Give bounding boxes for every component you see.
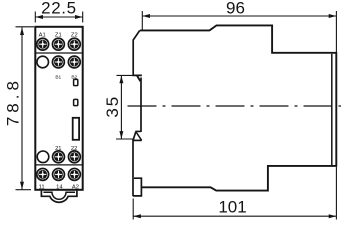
dim 35 bottom arrow	[119, 131, 123, 139]
dim width 22.5 right tick	[82, 12, 84, 23]
clip foot	[133, 178, 142, 196]
dim 35 bottom ext	[116, 138, 134, 140]
svg-text:A2: A2	[72, 185, 79, 191]
top hook lip	[137, 76, 140, 82]
dim 96 right arrow	[329, 14, 337, 18]
dim 101 right arrow	[329, 214, 337, 218]
terminal A1	[37, 38, 49, 50]
dim width 22.5 left tick	[34, 12, 36, 23]
recessed face	[140, 78, 142, 132]
dim 101 line	[133, 215, 336, 217]
svg-text:35: 35	[103, 95, 122, 118]
white circle row2	[37, 56, 49, 68]
terminal Z2	[68, 38, 80, 50]
dim 35 top ext	[117, 74, 134, 76]
inner wall right	[331, 54, 333, 165]
svg-text:14: 14	[56, 185, 63, 191]
svg-text:22.5: 22.5	[41, 0, 77, 18]
side profile top and right	[140, 25, 336, 190]
dim width 22.5 line	[35, 16, 82, 18]
svg-text:78.8: 78.8	[3, 77, 22, 126]
dim width 22.5 right arrow	[75, 15, 83, 19]
DIN clip tab front outer	[41, 191, 77, 203]
dim 101 left arrow	[133, 214, 141, 218]
separator line 1	[35, 52, 82, 54]
dim 96 line	[142, 15, 336, 17]
reset window	[73, 118, 79, 140]
dim 96 left ext	[141, 11, 143, 30]
dim 96 right ext	[335, 11, 337, 52]
terminal B2	[68, 56, 80, 68]
svg-text:B1: B1	[55, 75, 61, 81]
terminal 14	[53, 168, 65, 180]
LED window 1	[74, 79, 78, 85]
dim 35 line	[120, 76, 122, 139]
svg-text:101: 101	[218, 198, 246, 217]
front view outline	[35, 27, 82, 190]
terminal 21	[53, 151, 65, 163]
bottom hook	[135, 130, 141, 132]
white circle row3	[37, 151, 49, 163]
separator line 2	[35, 164, 82, 166]
centerline	[128, 105, 342, 107]
clip lever	[132, 139, 134, 196]
dim 101 right ext	[335, 167, 337, 220]
dim 96 left arrow	[142, 14, 150, 18]
dim height 78.8 bottom arrow	[20, 182, 24, 190]
dim 35 top arrow	[119, 76, 123, 84]
terminal Z1	[52, 38, 64, 50]
svg-text:96: 96	[226, 0, 245, 18]
LED window 2	[74, 99, 78, 105]
dim 101 left ext	[132, 199, 134, 220]
DIN clip tab front inner	[44, 192, 76, 199]
dim height 78.8 top arrow	[20, 27, 24, 35]
dim width 22.5 left arrow	[35, 15, 43, 19]
terminal B1	[52, 56, 64, 68]
svg-text:11: 11	[39, 185, 45, 191]
dim height 78.8 top ext	[16, 26, 35, 28]
terminal 22	[68, 151, 80, 163]
terminal A2	[68, 168, 80, 180]
dim height 78.8 bottom ext	[16, 189, 32, 191]
side profile left front face	[133, 30, 142, 75]
terminal 11	[37, 168, 49, 180]
dim height 78.8 line	[21, 27, 23, 189]
